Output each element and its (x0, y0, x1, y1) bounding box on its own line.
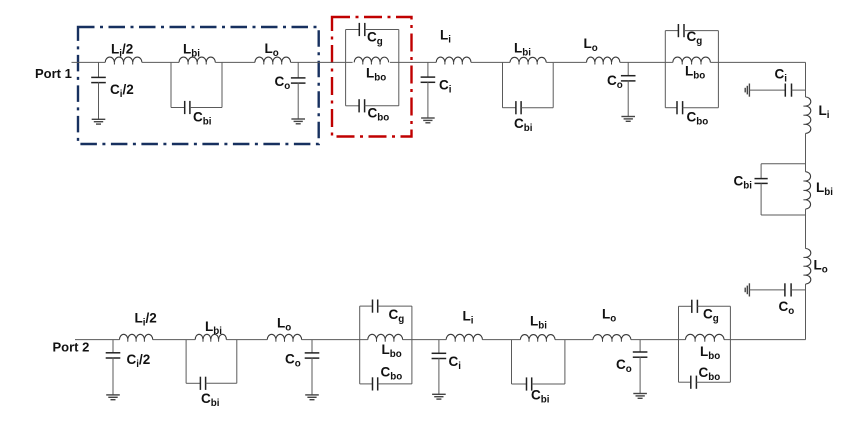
blockC top wire left (679, 305, 692, 307)
inductor Lbo (blockE) (368, 334, 403, 339)
capacitor Cbi (right branch) (755, 178, 768, 180)
svg-text:Li: Li (819, 103, 830, 121)
wire Ci to ground (427, 82, 429, 118)
inductor Lbi (blockF) (195, 334, 226, 339)
wire Li to block2 (471, 61, 510, 63)
ground below Ci/2 (92, 118, 106, 120)
inductor Lbo (blockB) (673, 57, 711, 62)
wire Ci/2 to ground (98, 82, 100, 119)
node H shunt capacitor Ci/2 branch wire (112, 340, 114, 353)
inductor Lbi (top block1) (179, 57, 215, 62)
wire Lo2 to blockB (620, 61, 673, 63)
svg-text:Lo: Lo (584, 36, 598, 54)
inductor Li (top) (436, 57, 471, 62)
wire Li to blockR (805, 133, 807, 171)
inductor Li (right branch) (806, 97, 811, 133)
node A shunt capacitor Ci/2 branch wire (98, 62, 100, 77)
block1 bottom left wire (171, 107, 185, 109)
ground left of Ci (right branch) (748, 84, 750, 97)
wire blockC to Co node (631, 339, 686, 341)
wire Co to ground (297, 83, 299, 119)
blockB bottom wire left (665, 107, 677, 109)
capacitor Cg (blockC) (691, 300, 693, 313)
block1 bottom right wire (190, 107, 222, 109)
svg-text:Cbi: Cbi (514, 116, 533, 134)
svg-text:Lo: Lo (602, 307, 616, 325)
svg-text:Cbi: Cbi (201, 391, 220, 409)
blockC top wire right (697, 305, 730, 307)
svg-text:Lo: Lo (277, 316, 291, 334)
wire Li to blockE (403, 339, 447, 341)
blockF left vertical wire (185, 340, 187, 384)
svg-text:Cbi: Cbi (531, 388, 550, 406)
capacitor Cbi (top block1) (184, 101, 186, 114)
blockB top wire left (665, 30, 678, 32)
wire ground to Co (749, 289, 785, 291)
blockF bottom wire left (186, 382, 200, 384)
inductor Li (bottom) (446, 334, 482, 339)
blockD bottom wire left (512, 383, 527, 385)
wire Lo to Co node (805, 284, 807, 340)
svg-text:Cg: Cg (703, 307, 719, 325)
ground below Ci (bottom) (432, 393, 446, 395)
block2 bottom left wire (503, 107, 516, 109)
blockE bottom wire left (360, 383, 373, 385)
capacitor Ci (right branch) (784, 84, 786, 97)
capacitor Cbi (blockD) (526, 377, 528, 390)
wire Ci to right branch (792, 89, 806, 91)
svg-text:Ci/2: Ci/2 (110, 82, 134, 100)
svg-text:Lo: Lo (814, 258, 828, 276)
blockA top wire right (365, 29, 399, 31)
svg-text:Cbo: Cbo (699, 365, 721, 383)
svg-text:Co: Co (275, 74, 291, 92)
svg-text:Li/2: Li/2 (111, 42, 133, 60)
svg-text:Li: Li (440, 28, 451, 46)
wire Lbi to block2 right (546, 61, 553, 63)
capacitor Co (bottom shunt left) (305, 352, 320, 354)
ground below Co2 (621, 116, 635, 118)
node E shunt capacitor Co branch wire (639, 340, 641, 352)
svg-text:Li/2: Li/2 (135, 311, 157, 329)
blockC right vertical wire (729, 306, 731, 382)
blockD left vertical wire (511, 340, 513, 384)
svg-text:Lbi: Lbi (183, 42, 200, 60)
wire blockD to Li (482, 339, 520, 341)
inductor Li/2 (top) (105, 57, 142, 62)
svg-text:Cg: Cg (687, 29, 703, 47)
blockE right vertical wire (411, 306, 413, 384)
wire blockR to Lo (805, 209, 807, 248)
wire Co to ground (bottom right) (639, 357, 641, 394)
svg-text:Cbo: Cbo (368, 106, 390, 124)
svg-text:Lo: Lo (265, 41, 279, 59)
blockA bottom wire right (365, 105, 399, 107)
svg-text:Cbo: Cbo (687, 110, 709, 128)
blockC bottom wire left (679, 381, 691, 383)
node D shunt capacitor Co branch wire (627, 62, 629, 75)
blockF right vertical wire (236, 340, 238, 384)
wire ground to Ci (749, 89, 785, 91)
blockR left vertical upper wire (760, 164, 762, 179)
blockR bottom wire (761, 214, 805, 216)
capacitor Ci (top shunt) (421, 76, 436, 78)
red dash-dot highlight box (resonator section) (332, 17, 412, 137)
blockD bottom wire right (532, 383, 565, 385)
inductor Lbi (right branch) (806, 172, 811, 209)
blockF bottom wire right (206, 382, 237, 384)
svg-text:Co: Co (779, 299, 795, 317)
svg-text:Co: Co (607, 73, 623, 91)
node G shunt capacitor Co branch wire (311, 340, 313, 353)
capacitor Co (top shunt) (291, 77, 306, 79)
capacitor Cg (blockE) (372, 300, 374, 313)
capacitor Ci/2 (bottom) (106, 352, 121, 354)
wire Port1 to node A (72, 61, 106, 63)
block1 right vertical wire (221, 62, 223, 107)
wire Lo to blockD (555, 339, 593, 341)
ground below Ci (421, 117, 435, 119)
blockB left vertical wire (664, 31, 666, 108)
node B shunt capacitor Co branch wire (297, 62, 299, 78)
svg-text:Lbi: Lbi (530, 314, 547, 332)
wire blockE to Co node (302, 339, 368, 341)
blockE top wire left (360, 305, 373, 307)
wire Co to right branch (791, 289, 805, 291)
svg-text:Ci/2: Ci/2 (127, 352, 151, 370)
blockA bottom wire left (346, 105, 360, 107)
capacitor Cg (blockB) (677, 24, 679, 37)
wire Co to ground (bottom left) (311, 358, 313, 395)
svg-text:Port 1: Port 1 (35, 66, 72, 81)
capacitor Co (top second shunt) (621, 75, 636, 77)
inductor Lbo (blockC) (686, 334, 724, 339)
svg-text:Lbi: Lbi (816, 180, 833, 198)
wire Co2 to ground (627, 81, 629, 117)
wire Lbi to block1 right (215, 61, 222, 63)
wire blockA to Li (390, 61, 436, 63)
svg-text:Port 2: Port 2 (53, 340, 90, 355)
wire block2 to Lo2 (553, 61, 586, 63)
svg-text:Lbo: Lbo (700, 344, 720, 362)
block2 bottom right wire (521, 107, 553, 109)
inductor Lbo (blockA) (354, 57, 388, 62)
capacitor Cbo (blockB) (676, 101, 678, 114)
svg-text:Lbo: Lbo (382, 342, 402, 360)
blockD right vertical wire (564, 340, 566, 384)
wire block1 to Lo (222, 61, 255, 63)
svg-text:Cg: Cg (367, 30, 383, 48)
capacitor Cbi (blockF) (199, 377, 201, 390)
wire Li/2 to Port 2 (75, 339, 120, 341)
blockE bottom wire right (378, 383, 412, 385)
blockE top wire right (378, 305, 412, 307)
svg-text:Lbo: Lbo (685, 64, 705, 82)
capacitor Ci (bottom shunt) (432, 352, 447, 354)
blue dash-dot highlight box (input section) (78, 27, 319, 144)
wire blockF to Li/2 (153, 339, 196, 341)
ground left of Co (right branch) (748, 283, 750, 296)
blockE left vertical wire (359, 306, 361, 384)
svg-text:Ci: Ci (775, 67, 788, 85)
svg-text:Co: Co (616, 357, 632, 375)
svg-text:Cbo: Cbo (381, 365, 403, 383)
blockA right vertical wire (398, 30, 400, 106)
blockB right vertical wire (717, 31, 719, 108)
wire Lo to blockF (226, 339, 267, 341)
block2 left vertical wire (502, 62, 504, 107)
svg-text:Li: Li (463, 309, 474, 327)
capacitor Cbi (top block2) (515, 101, 517, 114)
ground below Co (bottom left) (305, 394, 319, 396)
wire bottom-right corner to blockC (724, 339, 806, 341)
ground below Co (291, 118, 305, 120)
block1 left vertical wire (170, 62, 172, 107)
svg-text:Lbi: Lbi (514, 41, 531, 59)
blockB bottom wire right (683, 107, 719, 109)
capacitor Co (bottom shunt right) (633, 351, 648, 353)
blockR top wire (761, 163, 805, 165)
blockR left vertical lower wire (760, 183, 762, 215)
inductor Lo (top) (255, 57, 291, 62)
blockA left vertical wire (345, 30, 347, 106)
block2 right vertical wire (552, 62, 554, 107)
inductor Lo (bottom left) (267, 334, 301, 339)
blockA top wire left (346, 29, 360, 31)
capacitor Cbo (blockA) (358, 99, 360, 112)
wire Li/2 to block1 (142, 61, 179, 63)
inductor Lo (top second) (587, 57, 620, 62)
capacitor Cbo (blockC) (690, 376, 692, 389)
capacitor Co (right branch) (784, 283, 786, 296)
svg-text:Ci: Ci (439, 78, 452, 96)
blockB top wire right (684, 30, 718, 32)
svg-text:Ci: Ci (449, 354, 462, 372)
ground below Ci/2 (bottom) (106, 394, 120, 396)
wire top-right corner down to Ci node (805, 62, 807, 97)
inductor Lo (bottom right) (593, 335, 631, 340)
blockC bottom wire right (696, 381, 730, 383)
svg-text:Co: Co (285, 352, 301, 370)
inductor Lbi (blockD) (520, 335, 555, 340)
inductor Lo (right branch) (806, 249, 811, 285)
ground below Co (bottom right) (633, 393, 647, 395)
capacitor Cg (blockA) (358, 23, 360, 36)
node C shunt capacitor Ci branch wire (427, 62, 429, 77)
inductor Lbi (top block2) (510, 57, 546, 62)
wire Ci/2 to ground (bottom) (112, 358, 114, 395)
wire Ci to ground (bottom) (438, 358, 440, 394)
capacitor Cbo (blockE) (372, 377, 374, 390)
inductor Li/2 (bottom) (120, 334, 153, 339)
svg-text:Lbo: Lbo (366, 66, 386, 84)
svg-text:Cbi: Cbi (734, 174, 753, 192)
svg-text:Cg: Cg (389, 307, 405, 325)
capacitor Ci/2 (91, 76, 106, 78)
node F shunt capacitor Ci branch wire (438, 340, 440, 354)
wire blockB to top-right corner (710, 61, 805, 63)
wire Lo to red block (291, 61, 353, 63)
blockC left vertical wire (678, 306, 680, 382)
svg-text:Cbi: Cbi (193, 110, 212, 128)
